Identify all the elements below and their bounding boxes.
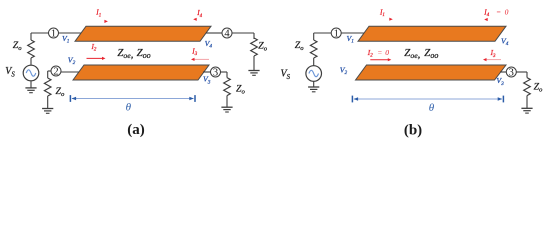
coupled line top (a) xyxy=(75,26,211,41)
source V_S (a) xyxy=(23,65,39,81)
label I_4 (a) xyxy=(196,9,202,19)
label I_4 = 0 (b) xyxy=(483,8,508,19)
wire node2 to line (a) xyxy=(61,71,79,73)
wire node1 to line (b) xyxy=(341,32,365,34)
coupled line top (b) xyxy=(358,26,506,41)
label theta (b) xyxy=(429,102,435,114)
label Z_o port2 (a) xyxy=(56,86,65,98)
resistor Z_o port2 (a) xyxy=(44,78,51,108)
label I_3 (b) xyxy=(490,49,496,59)
ground port4 (a) xyxy=(248,71,259,76)
label V_1 (b) xyxy=(347,34,355,45)
arrow I_2 (a) xyxy=(87,57,106,60)
arrow I_3 (a) xyxy=(191,58,209,61)
ground port2 (a) xyxy=(42,109,53,114)
wire node1 to line (a) xyxy=(59,32,83,34)
label V_3 (b) xyxy=(496,76,504,87)
wire node3 to Z_o (b) xyxy=(516,72,527,78)
label I_2 = 0 (b) xyxy=(367,48,389,59)
label V_S (a) xyxy=(5,66,15,79)
wire node3 to Z_o (a) xyxy=(221,72,228,78)
arrow I_3 (b) xyxy=(483,58,501,61)
arrow I_1 (b) xyxy=(389,18,393,21)
resistor Z_o source side (a) xyxy=(28,40,35,65)
svg-text:(b): (b) xyxy=(404,122,422,138)
svg-text:3: 3 xyxy=(509,68,514,79)
wire node4 to Z_o (a) xyxy=(232,33,254,39)
port node 1 (b) xyxy=(331,28,341,40)
port node 3 (b) xyxy=(506,67,516,79)
svg-text:2: 2 xyxy=(53,67,58,78)
svg-text:(a): (a) xyxy=(127,122,145,138)
svg-text:θ: θ xyxy=(126,101,132,113)
label Z_o port3 (a) xyxy=(236,84,245,96)
label V_3 (a) xyxy=(203,75,211,86)
label V_S (b) xyxy=(281,69,291,82)
label Z_o source side (b) xyxy=(295,40,304,52)
arrow I_1 (a) xyxy=(104,20,108,23)
arrow I_4 (a) xyxy=(193,18,197,21)
label V_4 (b) xyxy=(501,36,509,47)
label V_2 (a) xyxy=(68,55,76,66)
ground of source (a) xyxy=(25,81,36,93)
wire line to node 3 (b) xyxy=(500,71,506,73)
ground of source (b) xyxy=(308,81,319,92)
label Z_o source side (a) xyxy=(13,40,22,52)
svg-text:θ: θ xyxy=(429,102,435,114)
svg-text:1: 1 xyxy=(51,29,56,40)
source V_S (b) xyxy=(306,66,322,82)
label I_2 (a) xyxy=(91,43,97,53)
resistor Z_o port4 (a) xyxy=(251,38,258,70)
svg-text:1: 1 xyxy=(334,29,339,40)
wire line to node 3 (a) xyxy=(203,71,211,73)
svg-text:=: = xyxy=(377,48,382,57)
wire line to node 4 (a) xyxy=(206,32,222,34)
ground port3 (b) xyxy=(521,108,532,113)
arrow I_4 (b) xyxy=(484,18,488,21)
port node 3 (a) xyxy=(211,67,221,79)
label Z_oe Z_oo (b) xyxy=(404,47,438,60)
ground port3 (a) xyxy=(221,107,232,112)
svg-text:0: 0 xyxy=(505,8,509,17)
svg-text:0: 0 xyxy=(385,48,389,57)
coupled line bottom (a) xyxy=(73,65,209,80)
wire V_S to Z_o to node 1 (a) xyxy=(31,33,49,40)
label Z_oe Z_oo (a) xyxy=(117,47,150,60)
resistor Z_o source side (b) xyxy=(310,40,317,66)
dimension line theta (a) xyxy=(70,95,195,102)
label I_1 (b) xyxy=(379,9,385,19)
coupled line bottom (b) xyxy=(356,65,507,80)
dimension line theta (b) xyxy=(352,96,503,103)
port node 1 (a) xyxy=(49,28,59,40)
label theta (a) xyxy=(126,101,132,113)
svg-text:4: 4 xyxy=(224,29,230,40)
label V_4 (a) xyxy=(205,39,213,50)
resistor Z_o port3 (a) xyxy=(224,78,231,107)
svg-text:3: 3 xyxy=(213,68,218,79)
label I_3 (a) xyxy=(191,48,197,58)
arrow I_2 (b) xyxy=(370,58,391,61)
label Z_o port3 (b) xyxy=(534,82,543,94)
label I_1 (a) xyxy=(95,9,101,19)
wire node2 to Z_o (a) xyxy=(48,71,51,78)
label V_1 (a) xyxy=(62,34,70,45)
label Z_o port4 (a) xyxy=(258,40,267,52)
caption (b) xyxy=(404,122,422,138)
svg-text:=: = xyxy=(496,8,501,17)
port node 4 (a) xyxy=(222,28,232,40)
wire V_S to Z_o to node 1 (b) xyxy=(314,33,332,40)
port node 2 (a) xyxy=(51,66,61,78)
caption (a) xyxy=(127,122,145,138)
label V_2 (b) xyxy=(340,65,348,76)
resistor Z_o port3 (b) xyxy=(524,78,531,109)
